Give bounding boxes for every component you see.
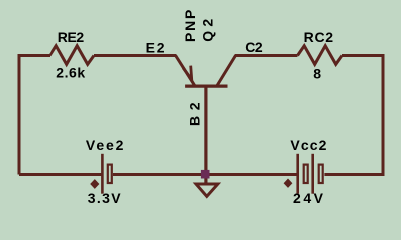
svg-text:C2: C2 xyxy=(245,39,263,55)
ground stem xyxy=(204,176,207,184)
transistor Q2 collector lead xyxy=(217,55,236,86)
wire right vertical xyxy=(382,54,385,176)
battery Vee2 negative plate xyxy=(108,165,112,183)
battery Vcc2 polarity marker xyxy=(284,179,291,187)
svg-text:RE2: RE2 xyxy=(58,29,85,45)
battery Vcc2 positive plate 2 xyxy=(311,154,314,194)
resistor RC2 body xyxy=(298,46,343,65)
svg-text:24V: 24V xyxy=(293,190,324,206)
battery Vee2 polarity marker xyxy=(91,180,99,188)
wire base vertical xyxy=(204,87,207,175)
wire junction to Vcc2 xyxy=(206,173,297,176)
wire RE2 to emitter xyxy=(94,54,176,57)
battery Vcc2 positive plate 1 xyxy=(296,154,299,194)
wire top left xyxy=(18,54,51,57)
wire left vertical xyxy=(18,56,21,175)
svg-text:8: 8 xyxy=(313,66,321,82)
wire bottom right xyxy=(324,173,384,176)
svg-text:RC2: RC2 xyxy=(304,29,334,45)
transistor Q2 emitter lead xyxy=(175,55,194,86)
svg-text:2.6k: 2.6k xyxy=(56,65,85,81)
transistor Q2 base bar xyxy=(185,85,227,88)
wire bottom left xyxy=(19,173,102,176)
wire top right xyxy=(342,54,385,57)
ground triangle xyxy=(196,184,218,196)
svg-text:Vcc2: Vcc2 xyxy=(290,137,326,153)
battery Vcc2 negative plate 2 xyxy=(319,165,323,183)
svg-text:3.3V: 3.3V xyxy=(88,190,121,206)
wire Vee2 to junction xyxy=(113,173,206,176)
resistor RE2 body xyxy=(50,46,94,65)
battery Vee2 positive plate xyxy=(101,154,104,194)
transistor Q2 emitter arrow xyxy=(183,66,192,80)
wire collector to RC2 xyxy=(235,54,298,57)
battery Vcc2 negative plate 1 xyxy=(304,165,308,183)
svg-text:PNP: PNP xyxy=(182,10,198,42)
junction node xyxy=(201,170,210,179)
